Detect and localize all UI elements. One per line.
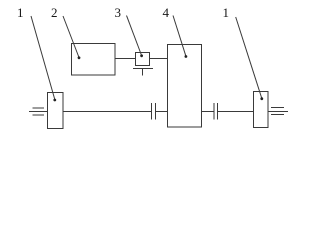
support under block 3: vertical stub xyxy=(142,69,144,76)
shaft wire: left coupling to gearbox xyxy=(156,111,168,113)
svg-text:1: 1 xyxy=(223,5,230,20)
block 1 right (bearing box) xyxy=(254,92,269,128)
leader line to motor xyxy=(63,16,80,59)
left coupling bar 2 xyxy=(155,103,157,120)
leader line to right bearing xyxy=(236,17,263,100)
svg-text:3: 3 xyxy=(115,5,122,20)
right ground middle line xyxy=(268,111,288,113)
shaft wire: gearbox to right coupling xyxy=(202,111,215,113)
shaft wire: right coupling to right bearing xyxy=(218,111,254,113)
leader line to left bearing xyxy=(31,16,56,101)
block 3 (small box) xyxy=(136,53,150,66)
left ground middle line xyxy=(29,111,48,113)
wire motor to block 3 xyxy=(115,58,136,60)
right coupling bar 1 xyxy=(213,103,215,120)
left coupling bar 1 xyxy=(151,103,153,120)
leader line to gearbox xyxy=(173,16,187,58)
block 1 left (bearing box) xyxy=(48,93,64,129)
svg-text:1: 1 xyxy=(17,5,24,20)
svg-text:2: 2 xyxy=(51,5,58,20)
right coupling bar 2 xyxy=(217,103,219,120)
block 4 (gearbox box) xyxy=(168,45,202,128)
left ground top line xyxy=(33,107,45,109)
left ground bottom line xyxy=(33,114,45,116)
wire block 3 to gearbox xyxy=(150,58,168,60)
block 2 (motor box) xyxy=(72,44,116,76)
shaft wire: left bearing to left coupling xyxy=(63,111,152,113)
leader line to block 3 xyxy=(127,16,144,58)
right ground bottom line xyxy=(271,114,284,116)
support under block 3: horizontal bar xyxy=(133,68,153,70)
right ground top line xyxy=(271,107,284,109)
svg-text:4: 4 xyxy=(163,5,170,20)
